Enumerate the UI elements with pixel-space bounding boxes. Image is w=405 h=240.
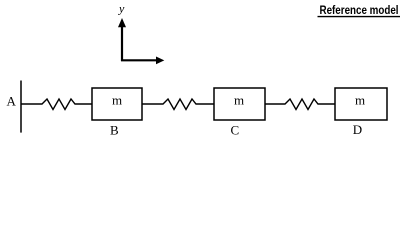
svg-text:A: A bbox=[7, 94, 17, 109]
y axis arrow bbox=[118, 18, 126, 61]
mass D box bbox=[335, 88, 387, 120]
x axis arrow bbox=[121, 57, 164, 65]
svg-text:m: m bbox=[355, 92, 365, 107]
spring k1 (wall to mass B) bbox=[21, 99, 92, 110]
svg-text:y: y bbox=[118, 2, 125, 16]
mass B box bbox=[92, 88, 142, 120]
svg-text:C: C bbox=[231, 123, 240, 138]
wall / fixed support A bbox=[20, 81, 22, 133]
svg-text:D: D bbox=[353, 122, 362, 137]
svg-text:Reference model: Reference model bbox=[320, 3, 399, 17]
svg-text:B: B bbox=[110, 123, 119, 138]
spring k3 (mass C to mass D) bbox=[265, 99, 335, 110]
title: Reference model bbox=[318, 3, 401, 17]
spring k2 (mass B to mass C) bbox=[142, 99, 214, 110]
svg-text:m: m bbox=[112, 92, 122, 107]
svg-text:m: m bbox=[234, 92, 244, 107]
mass C box bbox=[214, 88, 265, 120]
